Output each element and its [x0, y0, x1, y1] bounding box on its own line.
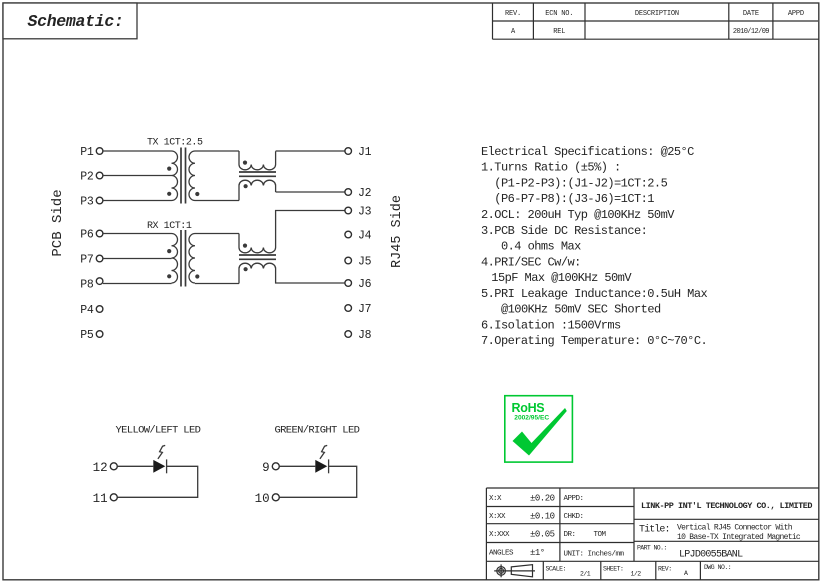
svg-text:P3: P3	[80, 196, 94, 209]
pin P8	[96, 278, 103, 285]
svg-text:REL: REL	[553, 28, 565, 36]
pin J7	[345, 305, 352, 312]
transformer T2 secondary winding	[189, 234, 195, 284]
pin P5	[96, 331, 103, 338]
pin J5	[345, 257, 352, 264]
svg-text:1/2: 1/2	[631, 571, 642, 578]
svg-text:APPD:: APPD:	[564, 495, 584, 503]
transformer T2 core	[180, 230, 182, 287]
wire to pin 11	[117, 466, 197, 497]
choke L1 bottom winding	[239, 180, 276, 200]
electrical specifications text	[481, 145, 707, 348]
svg-text:GREEN/RIGHT LED: GREEN/RIGHT LED	[275, 425, 360, 437]
svg-text:±1°: ±1°	[530, 548, 545, 558]
transformer T1 primary dots	[167, 167, 171, 171]
pin P4	[96, 306, 103, 313]
svg-text:5.PRI Leakage Inductance:0.5uH: 5.PRI Leakage Inductance:0.5uH Max	[481, 287, 707, 301]
svg-text:4.PRI/SEC Cw/w:: 4.PRI/SEC Cw/w:	[481, 255, 581, 269]
choke L2 top winding	[239, 211, 345, 253]
LED D2 light arrow	[320, 445, 327, 459]
pin J8	[345, 331, 352, 338]
transformer T1 primary winding	[172, 151, 178, 201]
svg-text:Vertical RJ45 Connector With: Vertical RJ45 Connector With	[677, 524, 793, 533]
svg-text:J4: J4	[358, 230, 372, 243]
svg-text:SCALE:: SCALE:	[546, 566, 566, 573]
transformer T2 primary winding	[172, 234, 178, 284]
svg-text:YELLOW/LEFT LED: YELLOW/LEFT LED	[116, 425, 201, 437]
svg-text:LPJD0055BANL: LPJD0055BANL	[679, 550, 743, 561]
wire P2	[103, 175, 172, 177]
svg-text:SHEET:: SHEET:	[603, 566, 623, 573]
svg-text:DESCRIPTION: DESCRIPTION	[635, 10, 679, 18]
LED D1 diode	[153, 460, 165, 473]
svg-text:±0.20: ±0.20	[530, 494, 555, 504]
svg-text:J6: J6	[358, 278, 372, 291]
svg-text:±0.05: ±0.05	[530, 530, 555, 540]
pin P6	[96, 230, 103, 237]
svg-text:DATE: DATE	[743, 10, 759, 18]
transformer T1 secondary dot	[195, 192, 199, 196]
pin P3	[96, 197, 103, 204]
svg-text:9: 9	[262, 461, 270, 475]
pin P2	[96, 172, 103, 179]
svg-text:A: A	[684, 570, 688, 577]
svg-text:RJ45 Side: RJ45 Side	[390, 195, 405, 268]
svg-text:J8: J8	[358, 329, 372, 342]
choke L1 top winding	[239, 151, 276, 170]
title block	[486, 488, 819, 580]
pin 12	[110, 463, 117, 470]
svg-text:RoHS: RoHS	[512, 401, 545, 415]
wire P8	[103, 283, 172, 285]
svg-text:15pF Max @100KHz 50mV: 15pF Max @100KHz 50mV	[491, 271, 632, 285]
svg-text:P1: P1	[80, 146, 94, 159]
svg-text:DWG NO.:: DWG NO.:	[704, 564, 731, 571]
svg-text:Electrical Specifications: @25: Electrical Specifications: @25°C	[481, 145, 694, 159]
svg-text:Title:: Title:	[639, 524, 670, 536]
svg-text:(P6-P7-P8):(J3-J6)=1CT:1: (P6-P7-P8):(J3-J6)=1CT:1	[494, 192, 654, 206]
choke L2 core	[239, 254, 276, 256]
svg-text:UNIT: Inches/mm: UNIT: Inches/mm	[564, 551, 625, 559]
svg-text:REV:: REV:	[658, 566, 672, 573]
svg-text:Schematic:: Schematic:	[28, 12, 124, 31]
svg-text:LINK-PP INT'L TECHNOLOGY CO.,: LINK-PP INT'L TECHNOLOGY CO., LIMITED	[641, 501, 812, 511]
LED D1 light arrow	[158, 445, 165, 459]
choke L2 dots	[243, 244, 247, 248]
pin 11	[110, 494, 117, 501]
svg-text:2.OCL: 200uH Typ @100KHz 50mV: 2.OCL: 200uH Typ @100KHz 50mV	[481, 208, 675, 222]
svg-text:6.Isolation :1500Vrms: 6.Isolation :1500Vrms	[481, 319, 621, 333]
transformer T1 secondary winding	[189, 151, 195, 201]
svg-text:J5: J5	[358, 256, 372, 269]
svg-text:PCB Side: PCB Side	[50, 189, 66, 256]
svg-text:0.4 ohms Max: 0.4 ohms Max	[501, 240, 581, 254]
svg-text:X:XX: X:XX	[489, 513, 506, 521]
choke L2 bottom winding	[239, 263, 345, 283]
svg-text:PART NO.:: PART NO.:	[637, 545, 667, 552]
svg-text:10 Base-TX Integrated Magnetic: 10 Base-TX Integrated Magnetic	[677, 533, 801, 542]
pin P1	[96, 148, 103, 155]
svg-text:P7: P7	[80, 254, 93, 267]
pin 9	[272, 463, 279, 470]
pin J3	[345, 207, 352, 214]
choke L1 dots	[243, 161, 247, 165]
pin 10	[272, 494, 279, 501]
svg-text:P2: P2	[80, 171, 94, 184]
svg-text:10: 10	[255, 492, 270, 506]
pin J1	[345, 148, 352, 155]
RoHS logo	[505, 396, 573, 462]
projection symbol	[497, 567, 506, 576]
wire secondary bottom to choke	[195, 283, 239, 285]
wire P1	[103, 150, 172, 152]
revision table header	[493, 3, 820, 39]
title box "Schematic:"	[3, 3, 137, 39]
wire to pin 10	[279, 466, 356, 497]
svg-text:REV.: REV.	[505, 10, 521, 18]
svg-text:APPD: APPD	[788, 10, 804, 18]
wire P7	[103, 258, 172, 260]
svg-text:@100KHz 50mV SEC Shorted: @100KHz 50mV SEC Shorted	[501, 303, 661, 317]
svg-text:P6: P6	[80, 229, 94, 242]
svg-text:3.PCB Side DC Resistance:: 3.PCB Side DC Resistance:	[481, 224, 647, 238]
svg-text:X:X: X:X	[489, 495, 502, 503]
pin J6	[345, 280, 352, 287]
svg-text:CHKD:: CHKD:	[564, 513, 584, 521]
svg-text:ANGLES: ANGLES	[489, 550, 514, 558]
svg-text:±0.10: ±0.10	[530, 512, 555, 522]
svg-text:TX 1CT:2.5: TX 1CT:2.5	[147, 138, 203, 149]
svg-text:J3: J3	[358, 206, 372, 219]
svg-text:2/1: 2/1	[580, 571, 591, 578]
wire secondary top to choke	[195, 233, 239, 235]
svg-text:P4: P4	[80, 304, 94, 317]
svg-text:ECN NO.: ECN NO.	[545, 10, 573, 18]
svg-text:2010/12/09: 2010/12/09	[733, 28, 769, 36]
svg-text:11: 11	[93, 492, 108, 506]
transformer T2 primary dots	[167, 249, 171, 253]
wire secondary bottom to choke	[195, 200, 239, 202]
svg-text:2002/95/EC: 2002/95/EC	[514, 414, 549, 421]
pin P7	[96, 255, 103, 262]
svg-text:TOM: TOM	[594, 531, 607, 539]
transformer T1 core	[180, 148, 182, 204]
wire P6	[103, 233, 172, 235]
svg-text:P5: P5	[80, 329, 94, 342]
LED D2 diode	[315, 460, 327, 473]
svg-text:DR:: DR:	[564, 531, 576, 539]
pin J4	[345, 231, 352, 238]
wire secondary top to choke	[195, 150, 239, 152]
wire	[279, 465, 315, 467]
svg-text:12: 12	[93, 461, 108, 475]
svg-text:1.Turns Ratio (±5%) :: 1.Turns Ratio (±5%) :	[481, 161, 621, 175]
svg-text:J1: J1	[358, 146, 372, 159]
svg-text:7.Operating Temperature: 0°C~7: 7.Operating Temperature: 0°C~70°C.	[481, 334, 707, 348]
wire	[117, 465, 153, 467]
choke L1 core	[239, 171, 276, 173]
transformer T2 secondary dot	[195, 274, 199, 278]
pin J2	[345, 189, 352, 196]
wire choke to J2	[276, 191, 345, 193]
svg-text:P8: P8	[80, 279, 94, 292]
svg-text:X:XXX: X:XXX	[489, 531, 510, 539]
svg-text:(P1-P2-P3):(J1-J2)=1CT:2.5: (P1-P2-P3):(J1-J2)=1CT:2.5	[494, 177, 667, 191]
wire choke to J1	[276, 150, 345, 152]
svg-text:J7: J7	[358, 303, 371, 316]
wire P3	[103, 200, 172, 202]
svg-text:J2: J2	[358, 187, 372, 200]
